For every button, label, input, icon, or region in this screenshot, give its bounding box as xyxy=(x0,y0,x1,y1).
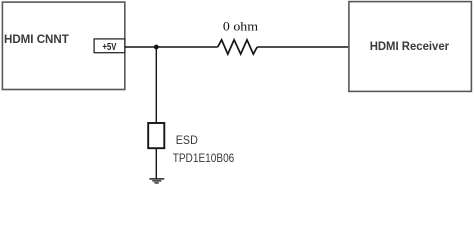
pin +5V box xyxy=(94,39,125,53)
svg-text:0 ohm: 0 ohm xyxy=(223,18,258,33)
svg-text:ESD: ESD xyxy=(176,133,198,147)
svg-text:+5V: +5V xyxy=(103,42,117,53)
connector J1: HDMI CNNT box xyxy=(2,2,124,89)
receiver U1: HDMI Receiver box xyxy=(349,2,472,92)
wire: resistor to HDMI receiver xyxy=(257,46,349,48)
wire: +5V pin to node A xyxy=(125,46,218,48)
wire: node A down to ESD diode xyxy=(155,47,157,123)
wire: ESD diode to ground xyxy=(155,148,157,178)
ground xyxy=(149,179,164,183)
ESD diode D1 body xyxy=(148,123,164,148)
svg-text:HDMI CNNT: HDMI CNNT xyxy=(4,33,69,46)
node A: junction dot xyxy=(154,45,159,50)
resistor R1 0 ohm xyxy=(218,40,258,54)
svg-text:TPD1E10B06: TPD1E10B06 xyxy=(173,151,235,165)
svg-text:HDMI Receiver: HDMI Receiver xyxy=(370,40,450,53)
